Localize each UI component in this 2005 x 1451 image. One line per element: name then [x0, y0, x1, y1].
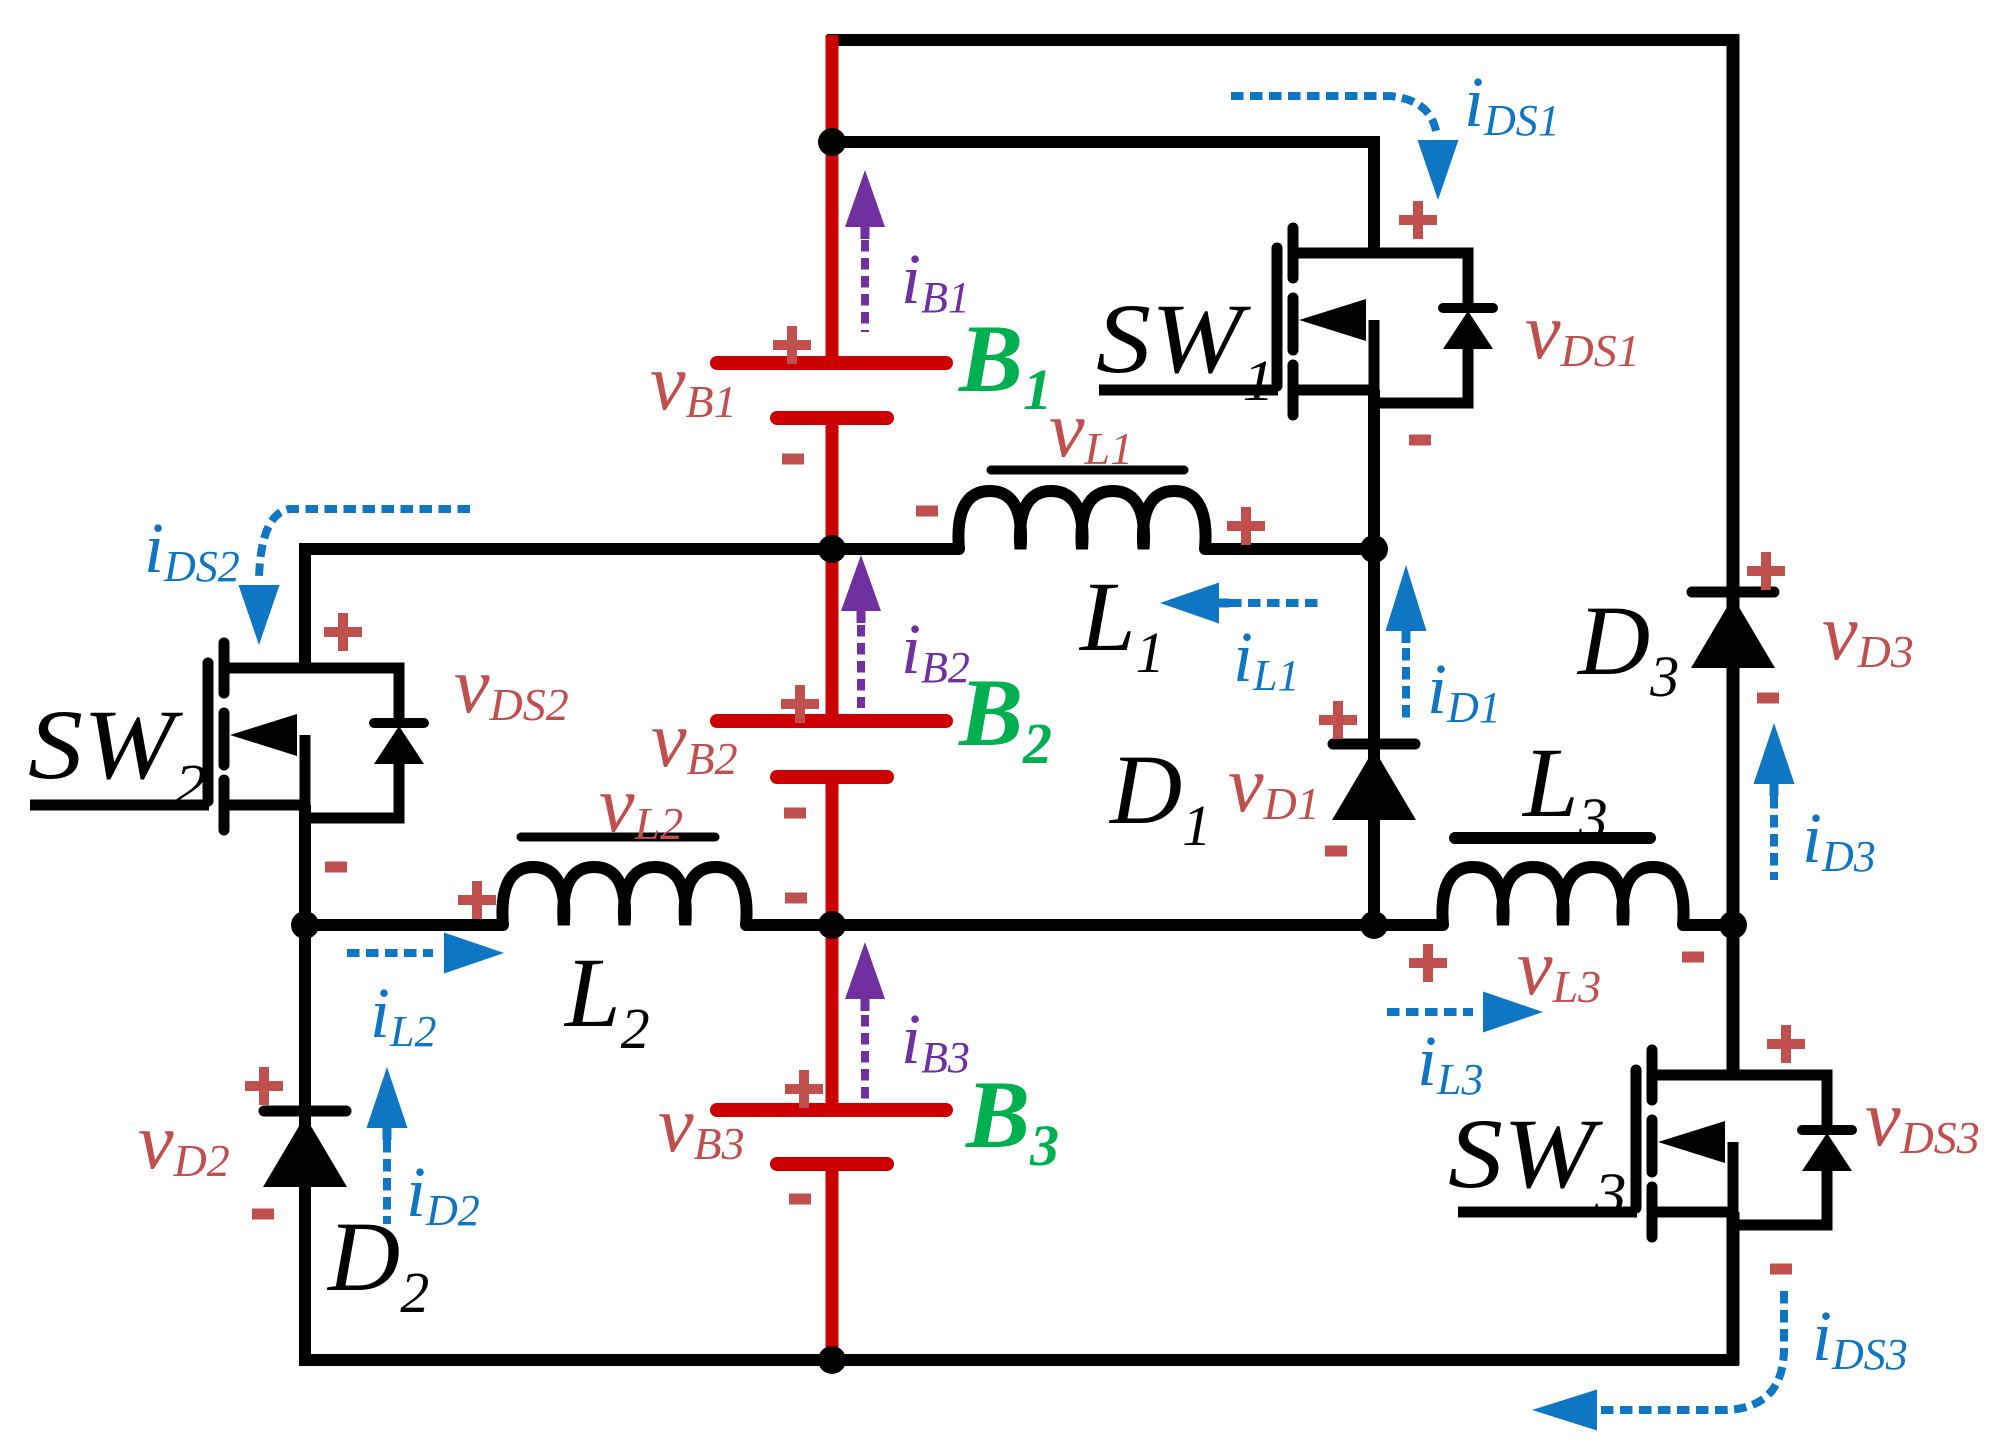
polarity marks L1	[916, 507, 1265, 545]
inductor L2 label overline	[521, 833, 715, 842]
battery B3 long plate	[717, 1103, 946, 1117]
gate lead SW2	[30, 800, 209, 811]
red battery-string rail segment 3	[826, 776, 839, 1112]
diode D1	[1332, 744, 1416, 820]
current arrow iB1	[845, 170, 885, 332]
node L3 right / right rail	[1719, 911, 1747, 939]
wire bottom rail	[299, 1354, 1739, 1366]
node bottom (B3- / bottom rail)	[818, 1346, 846, 1374]
current arrow iDS1	[1231, 96, 1459, 200]
node top (B1+ / top rail)	[818, 128, 846, 156]
node B (SW2 source / D2 / L2)	[291, 911, 319, 939]
wire SW1 source to node A	[1368, 390, 1380, 549]
wire top rail	[827, 34, 1739, 46]
polarity marks SW2	[324, 613, 362, 867]
wire D2 branch (left rail lower)	[299, 925, 311, 1365]
current arrow iDS3	[1532, 1291, 1784, 1431]
wire L2 right to center	[746, 919, 832, 931]
current arrow iD1	[1386, 565, 1427, 722]
wire center node to SW2 drain feed	[305, 549, 832, 668]
inductor L2	[502, 867, 746, 925]
wire SW3 source to bottom	[1727, 1212, 1740, 1365]
wire center to D1 bottom node	[832, 919, 1374, 931]
polarity marks D1	[1319, 701, 1357, 851]
node D1 bottom / L3 left	[1360, 911, 1388, 939]
node center-left (B1- / L1 / SW2 wire)	[818, 535, 846, 563]
polarity marks L3	[1409, 944, 1704, 982]
polarity marks B1	[773, 326, 811, 459]
transistor SW2 (MOSFET with body diode)	[208, 643, 424, 830]
battery B1 long plate	[717, 356, 946, 370]
polarity marks B2	[781, 685, 819, 813]
battery B2 long plate	[717, 714, 946, 728]
current arrow iL1	[1160, 583, 1322, 624]
red battery-string rail segment 2	[826, 418, 839, 723]
gate lead SW3	[1458, 1207, 1637, 1218]
polarity marks D3	[1747, 552, 1785, 698]
polarity marks SW3	[1767, 1025, 1805, 1269]
transistor SW1 (MOSFET with body diode)	[1277, 228, 1493, 415]
current arrow iL3	[1387, 992, 1543, 1033]
wire node A to L1 right	[1205, 543, 1374, 555]
current arrow iDS2	[239, 509, 471, 645]
wire L3 right to right rail	[1683, 919, 1733, 931]
wire second top rail and SW1 drain feed	[832, 142, 1374, 253]
node A (L1 / SW1 source / D1 top)	[1360, 535, 1388, 563]
polarity marks L2	[458, 881, 807, 919]
current arrow iL2	[347, 933, 504, 974]
inductor L3	[1442, 867, 1683, 925]
polarity marks SW1	[1399, 201, 1437, 440]
current arrow iD2	[367, 1067, 408, 1224]
polarity marks B3	[785, 1070, 823, 1199]
current arrow iD3	[1754, 723, 1795, 880]
polarity marks D2	[245, 1067, 283, 1214]
diode D2	[263, 1111, 347, 1187]
inductor L1 label overline	[991, 466, 1184, 475]
battery B3 short plate	[777, 1157, 887, 1171]
wire SW2 source to node B	[299, 805, 311, 925]
node center (B2- / L2 / D1 wire)	[818, 911, 846, 939]
battery B2 short plate	[777, 770, 887, 784]
wire node B to L2 left	[305, 919, 503, 931]
red battery-string rail segment 1	[826, 35, 839, 365]
current arrow iB2	[841, 555, 881, 708]
diode D3	[1691, 592, 1775, 668]
wire right rail to SW3 drain	[1727, 924, 1740, 1075]
wire D1 branch	[1368, 549, 1380, 925]
transistor SW3 (MOSFET with body diode)	[1636, 1050, 1852, 1237]
wire L1 left to center node	[832, 543, 959, 555]
wire D1 node to L3 left	[1374, 919, 1443, 931]
wire right rail upper	[1727, 35, 1740, 925]
inductor L1	[958, 491, 1205, 549]
red battery-string rail segment 4	[826, 1162, 839, 1360]
gate lead SW1	[1099, 385, 1278, 396]
inductor L3 label underline	[1455, 832, 1650, 844]
current arrow iB3	[845, 942, 885, 1100]
battery B1 short plate	[777, 411, 887, 425]
